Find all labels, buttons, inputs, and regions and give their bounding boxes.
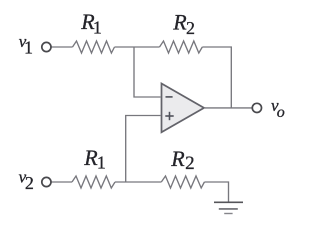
svg-text:R: R: [172, 10, 187, 35]
svg-text:1: 1: [24, 37, 33, 57]
svg-text:o: o: [277, 104, 285, 121]
svg-text:1: 1: [97, 152, 106, 172]
svg-text:R: R: [170, 146, 185, 171]
svg-text:2: 2: [185, 153, 195, 174]
svg-text:2: 2: [25, 173, 34, 193]
svg-text:1: 1: [93, 18, 102, 38]
svg-text:2: 2: [186, 18, 195, 38]
